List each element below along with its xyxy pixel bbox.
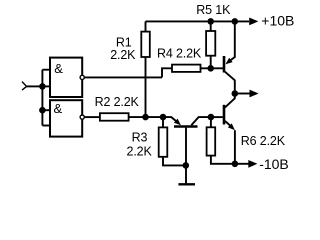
input terminal X — [22, 82, 27, 91]
wire gate1 upper input stub — [42, 69, 50, 71]
transistor Q3 — [163, 117, 211, 165]
ground symbol — [178, 165, 195, 184]
resistor R4 — [172, 65, 201, 72]
svg-text:2.2K: 2.2K — [110, 48, 136, 62]
resistor R5 — [206, 21, 215, 68]
wire gate1 output — [85, 76, 163, 78]
transistor Q1 — [224, 21, 235, 93]
svg-text:R6 2.2K: R6 2.2K — [241, 134, 286, 148]
NAND gate D1.1 — [50, 58, 84, 97]
node +10V branch junction dot — [232, 18, 239, 25]
wire vertical input tie — [41, 70, 43, 126]
svg-text:-10В: -10В — [259, 156, 289, 172]
node D junction dot R1-R2 — [142, 114, 149, 121]
NAND gate D1.2 — [50, 100, 84, 136]
svg-text:&: & — [54, 61, 63, 76]
resistor R1 — [141, 21, 150, 117]
wire gate2 lower input stub — [42, 125, 50, 127]
wire R4 to node C — [201, 67, 224, 69]
-10V terminal arrow — [235, 160, 258, 168]
svg-text:+10В: +10В — [261, 13, 294, 29]
resistor R6 — [207, 117, 235, 164]
node A junction dot — [39, 83, 46, 90]
node ground junction dot — [183, 162, 190, 169]
node E junction dot R3 — [160, 114, 167, 121]
node F junction dot R6 — [208, 114, 215, 121]
node B junction dot — [39, 107, 46, 114]
wire R4 left step — [162, 68, 172, 77]
node C junction dot — [207, 65, 214, 72]
wire gate2 output — [85, 116, 100, 118]
node R5 top junction dot — [207, 18, 214, 25]
svg-text:R5 1K: R5 1K — [196, 3, 231, 17]
svg-text:R2 2.2K: R2 2.2K — [95, 95, 140, 109]
wire R2 to node D — [129, 116, 163, 118]
output terminal arrow — [235, 90, 259, 98]
wire gate1 lower input — [42, 85, 50, 87]
wire Q2 base — [211, 116, 223, 118]
svg-text:&: & — [54, 101, 63, 116]
+10V terminal arrow — [249, 18, 258, 26]
svg-text:R3: R3 — [132, 130, 148, 144]
svg-text:2.2K: 2.2K — [127, 144, 153, 158]
svg-text:R4 2.2K: R4 2.2K — [157, 46, 202, 60]
node -10V junction dot — [232, 161, 239, 168]
resistor R3 — [159, 117, 186, 165]
wire +10V rail — [146, 20, 250, 22]
transistor Q2 — [224, 94, 235, 164]
wire input to node A — [27, 85, 43, 87]
resistor R2 — [100, 113, 129, 121]
node output junction dot — [232, 90, 239, 97]
wire gate2 upper input — [42, 109, 50, 111]
